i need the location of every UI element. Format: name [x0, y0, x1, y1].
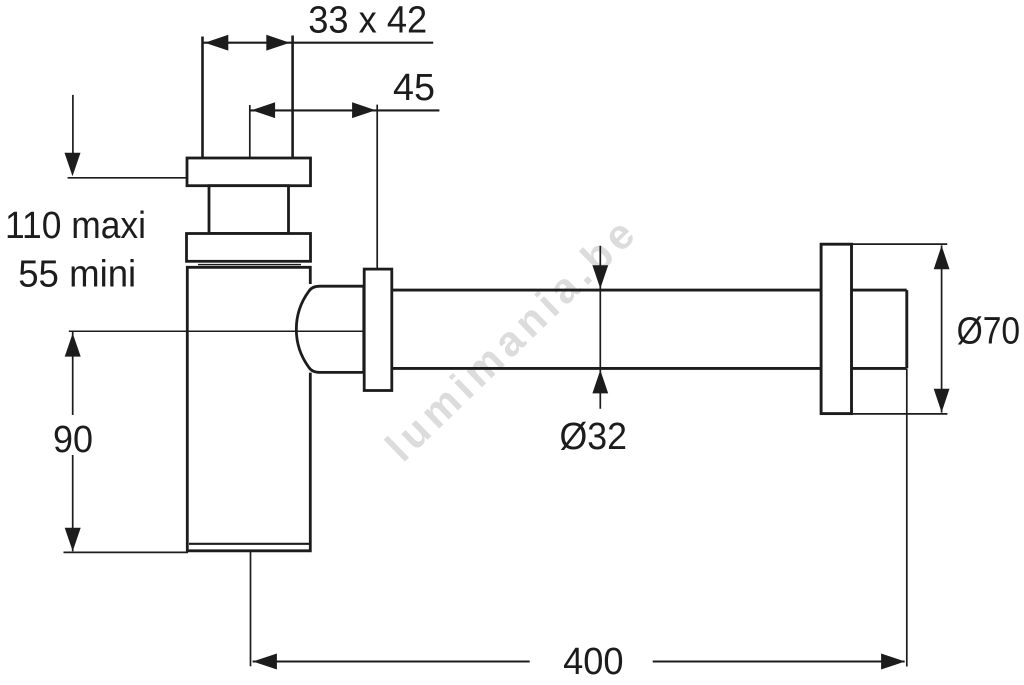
svg-text:400: 400: [563, 641, 624, 683]
trap body outline: [187, 267, 310, 551]
ext line O70 top: [852, 243, 947, 245]
dimension line 45: [250, 109, 440, 111]
svg-text:Ø32: Ø32: [560, 416, 628, 458]
dimension line 90 lower seg: [72, 455, 74, 551]
bell socket: [296, 286, 363, 372]
centerline axis: [69, 330, 364, 332]
svg-text:45: 45: [393, 67, 435, 109]
lock nut: [187, 234, 311, 262]
arrow 400 right: [881, 654, 905, 670]
arrow O32 up: [592, 370, 608, 393]
ext line 45 left: [249, 105, 251, 157]
dimension line 400 right seg: [653, 660, 905, 662]
ext line 45 right: [376, 105, 378, 268]
svg-text:90: 90: [53, 419, 93, 461]
ext line 400 left: [250, 552, 252, 667]
stem 110maxi arrow: [72, 95, 74, 156]
pipe end bottom edge: [851, 367, 906, 370]
arrow 90 up: [65, 333, 81, 356]
dimension line 90 upper seg: [72, 332, 74, 415]
pipe end top edge: [851, 289, 906, 292]
body bottom inner line: [189, 543, 309, 545]
pipe end cap: [905, 290, 908, 368]
arrow O32 down: [592, 265, 608, 288]
datum line 110maxi: [68, 177, 188, 179]
dimension line 400 left seg: [253, 660, 530, 662]
slip flange: [187, 158, 311, 186]
arrow 400 left: [253, 654, 277, 670]
tailpiece left edge / ext line: [201, 37, 204, 159]
arrow 33x42 left: [205, 35, 229, 51]
trap body fill: [187, 267, 310, 551]
svg-text:110 maxi: 110 maxi: [5, 205, 146, 247]
arrow 90 down: [65, 528, 81, 551]
svg-text:33 x 42: 33 x 42: [308, 0, 427, 42]
svg-text:Ø70: Ø70: [957, 311, 1021, 353]
ext line O70 bottom: [851, 413, 947, 415]
outlet pipe bottom edge: [392, 367, 821, 370]
svg-text:55 mini: 55 mini: [18, 254, 136, 296]
tailpiece right edge / ext line: [291, 36, 294, 159]
wall flange: [821, 244, 851, 413]
dimension line O70: [941, 245, 943, 412]
arrow 110maxi down: [65, 153, 81, 176]
dimension line O32: [599, 246, 601, 409]
arrow O70 down: [934, 389, 950, 413]
arrow 45 left: [252, 102, 276, 118]
ext line 90 bottom: [64, 551, 189, 553]
outlet nut: [364, 269, 392, 390]
ext line 400 right: [906, 369, 908, 667]
arrow O70 up: [934, 246, 950, 270]
neck: [209, 186, 289, 234]
dimension line 33x42: [203, 42, 434, 44]
seal line: [198, 264, 301, 266]
arrow 33x42 right: [266, 35, 290, 51]
outlet pipe top edge: [392, 289, 821, 292]
arrow 45 right: [352, 102, 376, 118]
